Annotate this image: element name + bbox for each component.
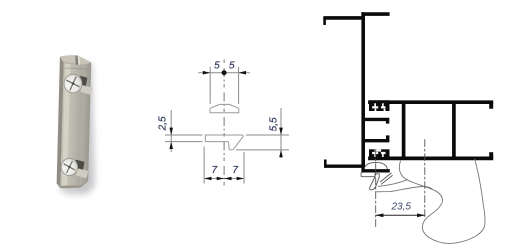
top screw [64,74,82,93]
svg-text:23,5: 23,5 [390,202,411,213]
2,5 arrow down (tip at y=135) [169,128,173,135]
top notch keeper (light wedge) [80,85,93,95]
striker dome [364,162,387,169]
23,5 arrow right (tip at x=424.8) [417,213,425,217]
7,7 arrow left inner (tip at x=224.1) [217,177,224,181]
arrow left (points right, tip at 210.2) [203,71,210,75]
bar above chamber2 with right tick [363,135,388,140]
top horizontal right arm [361,12,389,16]
7,7 dim extension line right [243,152,245,184]
svg-text:5: 5 [229,61,235,72]
plate top cap [60,55,92,66]
top-left arm [323,16,362,20]
23,5 dim line [376,214,425,216]
7,7 arrow right inner (tip at x=224.1) [224,177,231,181]
plate bottom face [56,181,88,189]
euro-groove chamber 2 (black with white cutouts, mirrored) [369,149,390,160]
top dim extension line right [238,67,240,104]
top wall [368,100,493,104]
bottom wall [368,157,493,161]
bottom wall right tick [489,152,493,158]
main vertical wall [361,12,365,172]
svg-text:5: 5 [214,61,220,72]
plate front face [61,56,84,186]
dome shape [210,104,239,112]
2,5 dim extension line top [165,134,203,136]
top slot right highlight [77,56,80,65]
plate left edge face [57,56,64,186]
top dim extension line left [209,67,211,104]
svg-text:5,5: 5,5 [269,117,280,131]
centerline left (through dome) [375,150,377,227]
top wall right tick [489,102,493,109]
top-left arm tick [323,18,326,25]
svg-text:7: 7 [232,165,238,176]
7,7 dim line [204,178,244,180]
bottom screw [61,158,78,176]
euro-groove chamber 1 (black with white cutouts) [369,100,390,111]
bottom-left arm tick [324,160,327,167]
2,5 dim line vertical [170,110,172,152]
cam outline [399,159,485,243]
top cap shading [64,62,92,66]
top slot [75,55,79,64]
7,7 arrow left outer (tip at x=204.1) [204,177,211,181]
bar under chamber1 with right tick [363,119,388,123]
2,5 arrow up (tip at y=141.6) [169,142,173,149]
bottom screw notch (dark) [75,160,85,170]
top screw notch (dark) [80,76,88,87]
gray striker + cam artwork [361,140,485,244]
23,5 arrow left (tip at x=375.7) [376,213,384,217]
7,7 dim extension line left [203,147,205,184]
striker neck tab [375,174,379,177]
plate right side face [80,58,91,185]
5,5 arrow down (tip at y=135) [279,128,283,135]
arm curve lower [376,186,432,191]
middle labels [158,61,280,176]
interior vertical 2 [452,103,456,158]
front face highlight band [62,56,70,186]
striker mounting bar (black) [362,169,390,172]
svg-text:7: 7 [212,165,218,176]
soft drop shadow [60,62,95,195]
7,7 arrow right outer (tip at x=244) [237,177,244,181]
5,5 dim extension line bottom [236,149,289,151]
5,5 dim extension line top [246,134,289,136]
bottom-left arm [324,164,362,167]
arm curve upper [378,180,408,187]
striker hook [370,177,380,190]
bar with tab shape [205,135,243,150]
2,5 dim extension line bottom [165,141,203,143]
bottom notch keeper (light wedge) [76,168,88,178]
interior vertical 1 [402,103,406,158]
center dot [222,70,227,75]
arrow right (points left, tip at 238.6) [239,71,246,75]
centerline [223,60,225,189]
striker plate body [361,173,375,177]
top dim line [198,72,250,74]
centerline right [424,140,426,219]
striker right bevel band [380,173,392,184]
5,5 dim line vertical [280,108,282,158]
svg-text:2,5: 2,5 [158,116,169,131]
5,5 arrow up (tip at y=149.9) [279,150,283,157]
top groove line [60,68,90,70]
